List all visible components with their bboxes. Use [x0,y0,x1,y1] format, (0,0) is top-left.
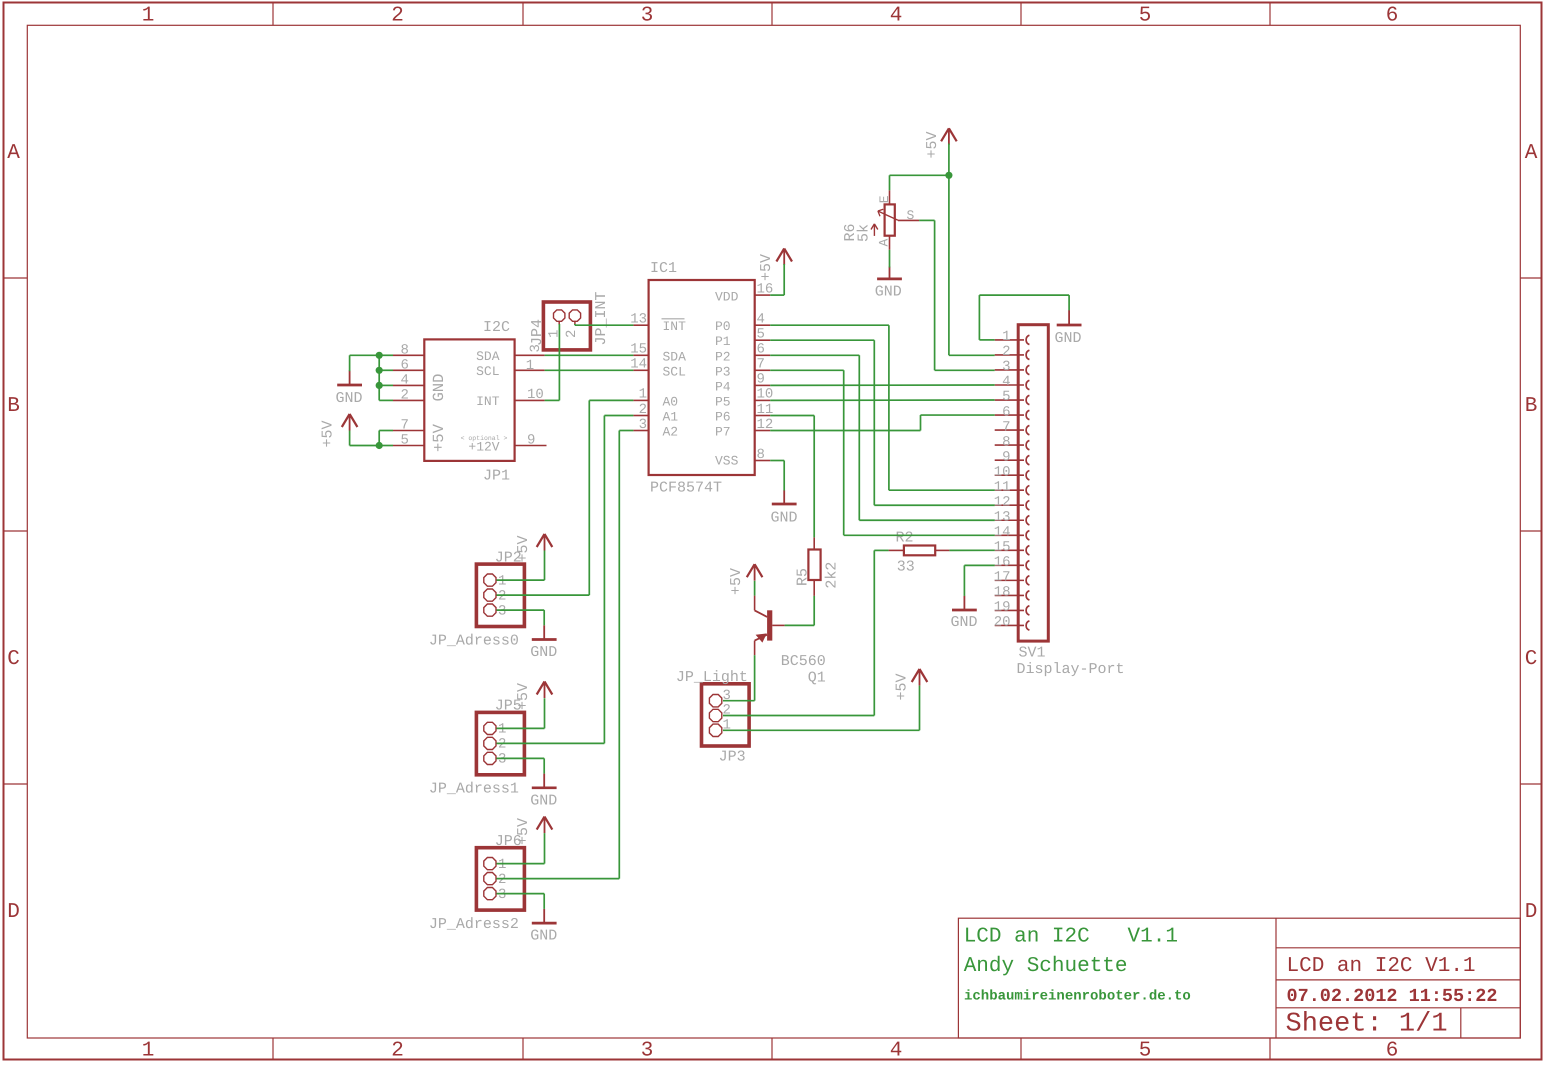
svg-text:2: 2 [498,588,506,604]
svg-text:+5V: +5V [430,423,448,452]
svg-text:IC1: IC1 [650,260,677,277]
connector SV1 Display-Port [1017,325,1125,678]
svg-text:4: 4 [890,5,903,28]
svg-text:8: 8 [400,343,408,359]
wire net SCL [545,369,634,371]
svg-text:JP_Light: JP_Light [676,669,748,686]
wire Q1 collector to +5V [754,581,756,596]
jumper JP6 JP_Adress2 [429,833,525,933]
wire GND bus JP1 pins 8-6-4-2 [350,355,393,400]
svg-text:3: 3 [498,603,506,619]
svg-text:P0: P0 [715,319,731,334]
wire net A2 [497,431,634,879]
SV1 pin 10 [994,464,1030,480]
wire net A0 [497,400,634,595]
svg-text:07.02.2012 11:55:22: 07.02.2012 11:55:22 [1287,986,1498,1007]
wire +5V branch to R6 [890,175,949,190]
svg-text:P3: P3 [715,364,731,379]
IC1 pin 5 P1 [715,327,770,350]
svg-text:C: C [1525,648,1538,671]
svg-text:SCL: SCL [663,364,686,379]
wire JP1 pin6 stub [379,369,393,371]
svg-text:17: 17 [994,570,1011,586]
svg-text:LCD an I2C V1.1: LCD an I2C V1.1 [964,926,1178,949]
wire Q1 emitter to JP3 pin3 [723,655,755,701]
svg-text:SV1: SV1 [1019,645,1046,662]
SV1 pin 12 [994,494,1030,510]
wire net VSS to GND [770,461,784,491]
IC1 pin 10 P5 [715,387,773,410]
svg-text:SCL: SCL [476,364,499,379]
svg-text:6: 6 [400,358,408,374]
resistor R5 2k2 [794,537,840,596]
wire GND drop at JP1 [349,355,351,371]
wire net INT JP1 to JP4 [545,324,560,400]
SV1 pin 18 [994,585,1030,601]
svg-text:4: 4 [400,373,408,389]
ground at JP5 [530,774,557,810]
supply +5V at IC1 VDD [758,249,792,282]
svg-text:I2C: I2C [483,319,510,336]
svg-text:13: 13 [994,509,1011,525]
ground at R6 [875,267,902,301]
svg-text:8: 8 [1002,434,1010,450]
svg-text:Display-Port: Display-Port [1017,661,1125,678]
svg-text:JP_Adress0: JP_Adress0 [429,632,519,649]
junction JP1 pin6 [376,367,383,374]
IC1 pin 16 VDD [715,281,773,304]
svg-text:JP_Adress2: JP_Adress2 [429,916,519,933]
svg-text:1: 1 [142,1040,155,1063]
supply +5V at JP6 [515,817,552,845]
wire +5V rail to SV1 pin2 [949,144,995,356]
svg-text:D: D [7,901,20,924]
svg-text:20: 20 [994,615,1011,631]
svg-text:9: 9 [527,433,535,449]
SV1 pin 4 [995,374,1030,390]
svg-text:P2: P2 [715,349,731,364]
wire net P2 to SV1 pin13 [770,355,995,520]
svg-text:SDA: SDA [663,349,687,364]
svg-text:A: A [877,239,892,247]
JP1 pin 5 [393,433,424,449]
ground at JP6 [530,909,557,945]
svg-text:A1: A1 [663,410,679,425]
wire JP2 pin1 to +5V [497,551,545,581]
jumper JP3 JP_Light [676,669,749,766]
JP1 pin 6 [393,358,424,374]
IC1 pin 6 P2 [715,342,770,365]
svg-text:10: 10 [994,464,1011,480]
svg-text:GND: GND [530,644,557,661]
svg-text:+5V: +5V [515,683,532,710]
wire R6 bottom to GND [889,250,891,268]
wire net P3 to SV1 pin14 [770,370,995,535]
supply +5V at JP3 [894,669,928,701]
junction JP1 pin5 [376,442,383,449]
svg-text:Sheet: 1/1: Sheet: 1/1 [1286,1010,1448,1040]
svg-text:16: 16 [994,555,1011,571]
svg-text:5: 5 [757,327,765,343]
svg-text:JP3: JP3 [719,749,746,766]
ground at JP2 [530,625,557,661]
supply +5V at JP5 [515,682,552,711]
svg-text:GND: GND [770,510,797,527]
ground at IC1 VSS [770,490,797,526]
wire net VDD +5V [770,264,784,295]
SV1 pin 19 [994,600,1030,616]
svg-text:4: 4 [1002,374,1010,390]
ic IC1 PCF8574T [649,260,755,497]
svg-text:6: 6 [757,342,765,358]
resistor R2 33 [889,530,950,576]
svg-text:+5V: +5V [320,420,337,447]
SV1 pin 13 [994,509,1030,525]
svg-text:1: 1 [498,857,506,873]
IC1 pin 7 P3 [715,357,770,380]
svg-text:S: S [907,208,915,223]
svg-text:1: 1 [639,387,647,403]
svg-text:GND: GND [335,390,362,407]
svg-text:R5: R5 [794,568,811,586]
SV1 pin 9 [995,449,1030,465]
supply +5V at JP1 [320,414,358,448]
svg-text:P4: P4 [715,379,731,394]
svg-text:A: A [7,142,20,165]
IC1 pin 4 P0 [715,312,770,335]
svg-text:GND: GND [530,928,557,945]
svg-text:2: 2 [498,872,506,888]
svg-text:3: 3 [498,887,506,903]
svg-text:BC560: BC560 [781,653,826,670]
svg-text:B: B [1525,395,1538,418]
IC1 pin 2 A1 [633,402,678,425]
svg-text:+5V: +5V [728,568,745,595]
wire net P7 to SV1 pin6 [770,415,995,430]
svg-text:14: 14 [994,524,1011,540]
svg-text:5: 5 [1139,5,1152,28]
svg-text:D: D [1525,901,1538,924]
SV1 pin 8 [995,434,1030,450]
svg-text:+5V: +5V [758,254,775,281]
svg-text:2: 2 [564,330,580,338]
wire net P4 to SV1 pin4 [770,384,995,386]
svg-text:2: 2 [391,5,404,28]
svg-text:INT: INT [476,394,500,409]
wire net INT JP4 to IC1 [575,324,634,325]
wire net P1 to SV1 pin12 [770,340,995,505]
SV1 pin 3 [995,359,1030,375]
svg-text:9: 9 [1002,449,1010,465]
connector JP1 I2C [424,319,514,485]
svg-text:2: 2 [400,388,408,404]
IC1 pin 13 INT [630,312,686,335]
svg-text:6: 6 [1002,404,1010,420]
junction JP1 pin8 [376,352,383,359]
svg-text:GND: GND [430,374,448,402]
svg-text:5: 5 [1002,389,1010,405]
junction JP1 pin4 [376,382,383,389]
jumper JP5 JP_Adress1 [429,698,525,798]
svg-text:Andy Schuette: Andy Schuette [964,955,1128,978]
IC1 pin 11 P6 [715,402,773,425]
IC1 pin 1 A0 [633,387,678,410]
wire JP2 pin3 to GND [497,610,545,625]
wire R2 to SV1 pin15 [949,549,994,551]
svg-text:GND: GND [950,614,977,631]
svg-text:VSS: VSS [715,454,739,469]
svg-text:E: E [877,195,892,203]
svg-text:2: 2 [498,737,506,753]
svg-text:3: 3 [498,752,506,768]
JP1 pin 3 SDA [515,344,545,355]
svg-text:5: 5 [1139,1040,1152,1063]
supply +5V main rail [924,128,957,158]
wire R5 to Q1 base [785,596,815,626]
svg-text:12: 12 [994,494,1011,510]
svg-text:VDD: VDD [715,289,739,304]
potentiometer R6 5k [842,190,919,250]
svg-text:P5: P5 [715,394,731,409]
svg-text:C: C [7,648,20,671]
svg-text:P1: P1 [715,334,731,349]
wire R6 wiper to SV1 pin3 [919,220,995,370]
JP1 pin 10 INT [515,387,545,403]
wire JP3 pin2 to R2 [723,550,889,715]
wire net P5 to SV1 pin5 [770,399,995,401]
svg-text:3: 3 [641,1040,654,1063]
SV1 pin 14 [994,524,1030,540]
wire net P6 to R5 [770,416,814,538]
svg-text:5: 5 [400,433,408,449]
svg-text:7: 7 [1002,419,1010,435]
svg-text:A: A [1525,142,1538,165]
svg-text:5k: 5k [856,224,873,242]
svg-text:1: 1 [498,722,506,738]
ground above SV1 [1054,310,1081,347]
svg-text:9: 9 [757,372,765,388]
SV1 pin 16 [994,555,1030,571]
svg-text:4: 4 [890,1040,903,1063]
svg-text:4: 4 [757,312,765,328]
svg-text:+5V: +5V [894,673,911,700]
wire SV1 pin1 to GND [979,295,1069,340]
wire JP1 pin4 stub [379,384,393,386]
svg-text:1: 1 [526,358,534,374]
IC1 pin 15 SDA [630,342,686,365]
IC1 pin 3 A2 [633,417,678,440]
SV1 pin 7 [995,419,1030,435]
ground at SV1 pin16 [950,596,977,631]
svg-text:P6: P6 [715,410,731,425]
svg-text:8: 8 [757,447,765,463]
svg-text:Q1: Q1 [808,669,826,686]
wire JP1 pin7 branch [379,431,393,446]
IC1 pin 8 VSS [715,447,770,469]
SV1 pin 6 [995,404,1030,420]
svg-text:3: 3 [641,5,654,28]
svg-text:7: 7 [400,418,408,434]
svg-text:3: 3 [639,417,647,433]
IC1 pin 12 P7 [715,417,773,440]
wire SV1 pin16 to GND [964,565,994,596]
svg-text:ichbaumireinenroboter.de.to: ichbaumireinenroboter.de.to [964,989,1191,1005]
svg-text:19: 19 [994,600,1011,616]
SV1 pin 2 [995,344,1030,360]
svg-text:A0: A0 [663,394,679,409]
wire net SDA [545,354,634,356]
wire JP6 pin3 to GND [497,894,545,909]
SV1 pin 20 [994,615,1030,631]
svg-text:B: B [7,395,20,418]
SV1 pin 5 [995,389,1030,405]
svg-text:GND: GND [875,284,902,301]
wire JP6 pin1 to +5V [497,833,545,864]
wire JP3 pin1 to +5V [723,686,920,731]
wire JP5 pin1 to +5V [497,698,545,728]
JP1 pin 7 [393,418,424,434]
svg-text:GND: GND [1054,330,1081,347]
JP1 pin 2 [393,388,424,404]
svg-text:INT: INT [663,319,687,334]
wire net P0 to SV1 pin11 [770,325,995,490]
svg-text:JP_INT: JP_INT [593,291,610,345]
svg-text:PCF8574T: PCF8574T [650,480,722,497]
svg-text:JP4: JP4 [529,319,546,346]
JP1 pin 1 SCL [515,358,545,374]
svg-text:2: 2 [639,402,647,418]
svg-text:P7: P7 [715,425,731,440]
svg-text:15: 15 [994,540,1011,556]
SV1 pin 15 [994,540,1030,556]
svg-text:JP_Adress1: JP_Adress1 [429,781,519,798]
wire net A1 [497,416,634,744]
SV1 pin 17 [994,570,1030,586]
svg-text:1: 1 [1002,329,1010,345]
supply +5V at Q1 [728,564,763,595]
wire JP5 pin3 to GND [497,758,545,773]
SV1 pin 11 [994,479,1030,495]
svg-text:R2: R2 [896,530,914,547]
JP1 pin 8 [393,343,424,359]
svg-text:6: 6 [1386,1040,1399,1063]
SV1 pin 1 [995,329,1030,345]
jumper JP4 JP_INT [529,291,610,349]
svg-text:+12V: +12V [468,440,499,455]
svg-text:33: 33 [897,559,915,576]
ground at JP1 [335,370,362,406]
svg-text:1: 1 [142,5,155,28]
svg-text:2: 2 [391,1040,404,1063]
IC1 pin 9 P4 [715,372,770,395]
jumper JP2 JP_Adress0 [429,549,525,649]
svg-text:10: 10 [527,387,544,403]
svg-text:GND: GND [530,792,557,809]
wire JP1 pin8 stub [379,354,393,356]
supply +5V at JP2 [515,534,552,563]
svg-text:A2: A2 [663,425,679,440]
wire +5V to JP1 pins 5,7 [350,431,393,446]
JP1 pin 9 +12V [515,433,547,449]
svg-text:LCD an I2C V1.1: LCD an I2C V1.1 [1287,955,1476,978]
junction +5V rail R6 [945,172,952,179]
svg-text:JP1: JP1 [483,468,510,485]
svg-text:11: 11 [994,479,1011,495]
svg-text:SDA: SDA [476,349,500,364]
svg-text:18: 18 [994,585,1011,601]
svg-text:+5V: +5V [924,131,941,158]
svg-text:6: 6 [1386,5,1399,28]
svg-text:+5V: +5V [515,818,532,845]
svg-text:1: 1 [498,573,506,589]
svg-text:3: 3 [1002,359,1010,375]
IC1 pin 14 SCL [630,357,686,380]
svg-text:+5V: +5V [515,535,532,562]
svg-text:2: 2 [1002,344,1010,360]
svg-text:2k2: 2k2 [824,562,841,589]
JP1 pin 4 [393,373,424,389]
transistor Q1 BC560 [755,596,826,687]
svg-text:7: 7 [757,357,765,373]
